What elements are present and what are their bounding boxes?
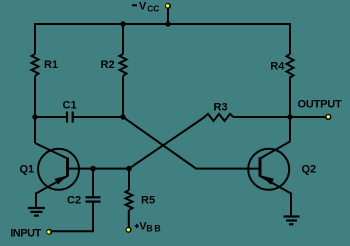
svg-text:C2: C2 <box>67 194 81 206</box>
wire R5 lower lead <box>128 210 130 228</box>
svg-text:R2: R2 <box>101 59 115 71</box>
label -VCC <box>132 1 159 14</box>
terminal -VCC <box>165 3 171 9</box>
wire cross diagonal B (Q1 base to R3) <box>129 118 204 169</box>
terminal +VBB <box>126 227 132 233</box>
svg-text:V: V <box>139 1 147 13</box>
svg-text:R1: R1 <box>44 59 58 71</box>
wire right column (R4 branch) <box>289 23 291 54</box>
resistor R5 <box>126 190 133 210</box>
svg-text:INPUT: INPUT <box>10 227 41 239</box>
node C1 right junction <box>120 114 125 119</box>
svg-text:Q2: Q2 <box>302 163 317 175</box>
node output junction <box>287 114 292 119</box>
svg-text:C1: C1 <box>63 99 77 111</box>
ground Q1 <box>28 208 45 216</box>
label +VBB <box>135 220 163 233</box>
wire C1 right lead <box>73 116 123 118</box>
svg-text:R5: R5 <box>141 194 155 206</box>
wire output lead <box>290 116 326 118</box>
wire C2 lower lead to input <box>52 203 93 232</box>
resistor R1 <box>32 54 39 76</box>
svg-text:Q1: Q1 <box>20 163 35 175</box>
wire R2 lower <box>122 76 124 117</box>
svg-text:OUTPUT: OUTPUT <box>298 99 343 111</box>
wire left column lower <box>34 76 36 143</box>
node R2 top junction <box>120 21 125 26</box>
resistor R4 <box>287 54 294 78</box>
wire R4 lower <box>289 76 291 118</box>
resistor R2 <box>120 54 127 76</box>
wire Q1 emitter drop <box>35 193 37 209</box>
node C1 left junction <box>32 114 37 119</box>
wire VCC drop <box>167 8 169 24</box>
node C2 junction <box>90 166 96 172</box>
transistor Q2 <box>248 142 291 194</box>
wire C2 upper lead <box>92 169 94 197</box>
node VCC junction <box>165 21 170 26</box>
resistor R3 <box>204 114 234 121</box>
svg-text:R4: R4 <box>270 61 285 73</box>
wire top bus <box>35 23 290 25</box>
wire Q2 collector drop <box>289 118 291 142</box>
wire R3 to output node <box>234 116 291 118</box>
wire cross diagonal A (C1/R2 node to Q2 base) <box>123 117 260 169</box>
terminal INPUT <box>46 229 52 235</box>
capacitor C1 <box>67 112 73 123</box>
svg-text:CC: CC <box>147 3 159 13</box>
wire R5 upper lead <box>128 169 130 190</box>
wire left column upper (R1 branch) <box>34 23 36 54</box>
node R5 junction <box>126 166 132 172</box>
svg-text:BB: BB <box>146 224 162 234</box>
wire C1 left lead <box>35 116 67 118</box>
wire Q1 base rail <box>68 168 130 170</box>
transistor Q1 <box>35 143 79 194</box>
capacitor C2 <box>86 197 101 201</box>
wire Q2 emitter drop <box>290 193 292 217</box>
ground Q2 <box>284 217 300 225</box>
svg-text:R3: R3 <box>214 102 228 114</box>
wire R2 upper <box>122 24 124 54</box>
terminal OUTPUT <box>325 114 331 120</box>
